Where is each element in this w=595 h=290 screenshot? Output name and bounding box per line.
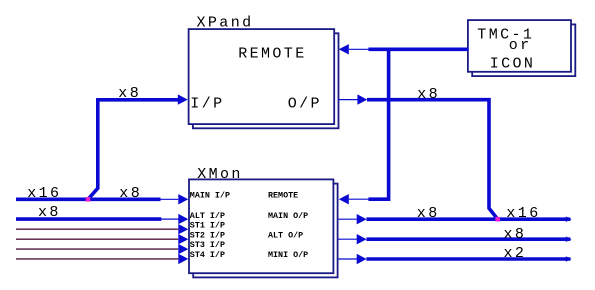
wire x16 main output bus bbox=[366, 217, 570, 221]
box TMC-1/ICON bbox=[468, 20, 571, 72]
svg-text:XMon: XMon bbox=[197, 166, 243, 183]
pin arrow into XPand REMOTE (points left) bbox=[349, 48, 369, 50]
wire x8 ALT output bus bbox=[366, 237, 570, 241]
box XPand shadow bbox=[193, 33, 339, 128]
wire x8 ALT input bus bbox=[16, 217, 161, 221]
pin arrow into XPand I/P bbox=[178, 94, 188, 104]
wire x16 main input bus (left) bbox=[16, 198, 161, 202]
svg-text:x8: x8 bbox=[417, 86, 440, 103]
svg-text:x8: x8 bbox=[118, 85, 141, 102]
svg-text:x8: x8 bbox=[417, 205, 440, 222]
wire remote branch down to XMon REMOTE bbox=[368, 48, 388, 200]
svg-text:x16: x16 bbox=[27, 185, 61, 202]
wire x8 from XPand O/P down to output junction bbox=[367, 100, 498, 220]
junction dot right bbox=[495, 217, 500, 222]
pin arrow into XMon MAIN I/P bbox=[160, 198, 178, 200]
pin arrow out of XMon MINI O/P bbox=[338, 258, 357, 260]
svg-text:x8: x8 bbox=[119, 185, 142, 202]
box XMon bbox=[189, 179, 333, 273]
pin arrow into XMon ST3 I/P bbox=[178, 244, 188, 254]
pin arrow out of XMon MAIN O/P bbox=[338, 218, 357, 220]
svg-text:MAIN I/P: MAIN I/P bbox=[190, 191, 230, 201]
wire ST4 input bbox=[16, 258, 178, 260]
junction dot left bbox=[86, 197, 91, 202]
pin arrow out of XPand O/P bbox=[338, 99, 358, 101]
svg-text:or: or bbox=[509, 37, 532, 54]
svg-text:ST2 I/P: ST2 I/P bbox=[190, 230, 225, 240]
svg-text:REMOTE: REMOTE bbox=[238, 46, 306, 63]
svg-text:REMOTE: REMOTE bbox=[268, 191, 298, 201]
svg-text:x8: x8 bbox=[38, 204, 61, 221]
svg-text:O/P: O/P bbox=[288, 96, 322, 113]
svg-text:ALT O/P: ALT O/P bbox=[268, 230, 303, 240]
wire x2 MINI output bus bbox=[366, 257, 570, 261]
end cap x16 output bus bbox=[566, 216, 572, 222]
box XMon shadow bbox=[193, 184, 337, 278]
svg-text:ST1 I/P: ST1 I/P bbox=[190, 220, 225, 230]
pin arrow into XMon ST1 I/P bbox=[178, 224, 188, 234]
svg-text:ST3 I/P: ST3 I/P bbox=[190, 240, 225, 250]
end cap x8 ALT output bus bbox=[566, 236, 572, 242]
svg-text:I/P: I/P bbox=[190, 96, 224, 113]
pin arrow into XMon REMOTE (points left) bbox=[349, 198, 369, 200]
wire TMC-1 to XPand REMOTE bbox=[368, 47, 468, 51]
svg-text:ICON: ICON bbox=[490, 56, 536, 73]
svg-text:x2: x2 bbox=[504, 245, 527, 262]
svg-text:XPand: XPand bbox=[197, 15, 254, 32]
pin arrow into XMon ST4 I/P bbox=[178, 254, 188, 264]
wire ST2 input bbox=[16, 238, 178, 240]
wire ST1 input bbox=[16, 228, 178, 230]
svg-text:x8: x8 bbox=[504, 226, 527, 243]
end cap x2 MINI output bus bbox=[566, 256, 572, 262]
box XPand bbox=[189, 29, 335, 124]
svg-text:MAIN O/P: MAIN O/P bbox=[268, 211, 308, 221]
pin arrow out of XMon ALT O/P bbox=[338, 238, 357, 240]
pin arrow into XMon ALT I/P bbox=[161, 218, 179, 220]
svg-text:ST4 I/P: ST4 I/P bbox=[190, 250, 225, 260]
box TMC-1/ICON shadow bbox=[472, 24, 575, 76]
svg-text:MINI O/P: MINI O/P bbox=[268, 250, 308, 260]
svg-text:x16: x16 bbox=[506, 205, 540, 222]
wire ST3 input bbox=[16, 248, 178, 250]
pin arrow into XMon ST2 I/P bbox=[178, 234, 188, 244]
wire x8 branch up to XPand I/P bbox=[88, 100, 179, 200]
